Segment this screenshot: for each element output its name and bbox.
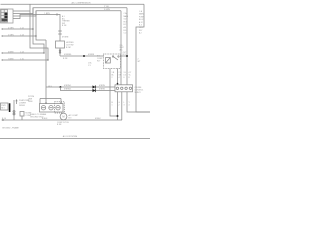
- solenoid coil L2: [49, 106, 53, 110]
- svg-text:2 YEL: 2 YEL: [104, 6, 109, 8]
- svg-text:M GRN: M GRN: [62, 37, 69, 39]
- wire solenoid drop left: [39, 99, 41, 104]
- svg-text:1 BRN: 1 BRN: [44, 13, 50, 15]
- svg-text:M BLK: M BLK: [95, 118, 101, 120]
- wire label M GRN: [62, 37, 69, 39]
- wire label M BRN/L: [64, 54, 72, 56]
- wire A6 label: [8, 51, 24, 53]
- wire solenoid drop right: [60, 99, 62, 104]
- svg-text:M BRN: M BRN: [99, 89, 105, 91]
- wire clutch feed: [46, 86, 61, 88]
- node J5 junction dot: [117, 115, 119, 117]
- svg-text:AC-24 SYSTEM: AC-24 SYSTEM: [63, 135, 78, 138]
- svg-text:M BRN: M BRN: [99, 85, 105, 87]
- svg-text:B 2M: B 2M: [66, 47, 71, 49]
- wire servo pin2 down: [121, 92, 123, 120]
- ground bus wire: [2, 119, 122, 121]
- svg-text:B 3M: B 3M: [57, 124, 62, 126]
- wire bus C label column: [120, 45, 128, 56]
- wire bus B: [13, 8, 127, 14]
- motor label: [69, 114, 79, 120]
- svg-text:MAIN: MAIN: [124, 15, 129, 18]
- compressor clutch dashed box: [55, 102, 65, 113]
- wire solenoid feed: [40, 98, 61, 100]
- node J4 junction dot: [60, 86, 62, 88]
- wire A/C chain vertical: [57, 15, 60, 57]
- svg-text:M BRN/L: M BRN/L: [64, 85, 71, 87]
- wire vertical labels upper: [112, 72, 132, 79]
- svg-text:4: 4: [129, 105, 130, 107]
- svg-text:M: M: [62, 115, 64, 119]
- wire left branch vertical 2: [33, 8, 44, 53]
- wire servo pin3 to right exit: [127, 92, 150, 112]
- connector C4 pins: [13, 111, 15, 116]
- relay K1 contact: [112, 56, 119, 60]
- platform relay label: [1, 105, 6, 110]
- svg-text:SERVO: SERVO: [135, 92, 142, 94]
- servo connector U1 box: [115, 85, 133, 92]
- A/C thermostat label: [62, 15, 70, 27]
- wire A4 label: [8, 27, 24, 29]
- platform lower drum label 2: [28, 96, 34, 103]
- solenoid coil L3: [56, 106, 60, 110]
- wire bus A top: [13, 10, 30, 12]
- svg-text:B 4: B 4: [139, 25, 142, 27]
- relay K1 coil: [106, 58, 111, 64]
- svg-text:C 5: C 5: [88, 65, 91, 67]
- solenoid box U2: [40, 104, 64, 113]
- wire bus C right drop: [120, 11, 122, 86]
- servo connector pins: [116, 87, 131, 89]
- solenoid coil L1: [41, 106, 45, 110]
- svg-text:DRM: DRM: [28, 101, 33, 103]
- wire drop to clutch line: [45, 40, 47, 103]
- wire D to A/C switch chain: [13, 15, 57, 19]
- wire left branch vertical 1: [30, 4, 48, 60]
- wire bus A top line: [1, 3, 145, 5]
- svg-text:B 6: B 6: [124, 30, 127, 32]
- svg-text:C 2: C 2: [124, 33, 127, 35]
- svg-text:4 GRN: 4 GRN: [8, 27, 14, 29]
- wire diode line 1: [61, 86, 116, 88]
- hi pressure switch S2 box: [56, 41, 65, 48]
- capacitor C5 label: [26, 113, 33, 118]
- platform relay box K2: [1, 103, 9, 110]
- connector C1 tick: [56, 13, 58, 16]
- wire to compressor relay: [60, 55, 104, 57]
- wire diode line 1 labels: [64, 85, 105, 87]
- motor M1: [60, 113, 67, 120]
- wire bus A right drop: [136, 4, 150, 112]
- svg-text:B 3: B 3: [69, 118, 72, 120]
- wire vertical labels lower: [112, 102, 131, 107]
- svg-text:A 2: A 2: [139, 32, 142, 35]
- wire bus C: [13, 11, 121, 16]
- connector C2 pins: [59, 50, 61, 54]
- svg-text:M BRN/L: M BRN/L: [64, 54, 72, 56]
- ground G1 arrow: [15, 99, 17, 104]
- connector C3 black bar: [9, 103, 11, 112]
- svg-text:3 GRN: 3 GRN: [104, 9, 110, 11]
- wire A7 label: [8, 58, 24, 60]
- wire diode line 2 labels: [64, 89, 105, 91]
- thermostat switch S1: [58, 31, 62, 34]
- svg-text:C 15: C 15: [20, 58, 24, 60]
- ground bus labels: [2, 118, 101, 120]
- svg-text:MAIN: MAIN: [139, 13, 144, 16]
- off-page arrow A4: [1, 28, 34, 30]
- svg-text:B 2M: B 2M: [63, 58, 68, 60]
- svg-text:C 13: C 13: [20, 34, 24, 36]
- header title text: [71, 2, 91, 5]
- ground note text: [2, 127, 19, 130]
- shield label: [30, 113, 47, 119]
- svg-text:M BRN: M BRN: [88, 54, 95, 56]
- svg-text:A 12: A 12: [139, 21, 143, 24]
- svg-text:B 2: B 2: [124, 24, 127, 26]
- wire relay output: [120, 55, 127, 57]
- wire below-line label: [63, 58, 68, 60]
- hi pressure switch label: [66, 42, 74, 49]
- svg-text:7 BRN: 7 BRN: [8, 58, 14, 60]
- footer text: [63, 135, 78, 138]
- node J7 dot: [60, 103, 62, 105]
- svg-text:8: 8: [129, 77, 130, 79]
- svg-text:5 GRN: 5 GRN: [8, 34, 14, 36]
- svg-text:4KG: 4KG: [48, 86, 52, 88]
- wire left branch vertical 3: [36, 11, 46, 40]
- wire branch to diode line 2: [61, 87, 116, 91]
- relay K1 pin circle: [104, 55, 106, 57]
- svg-text:6 BRN: 6 BRN: [8, 51, 14, 53]
- svg-text:GROUND - FRAME: GROUND - FRAME: [2, 127, 19, 130]
- connector C6 label: [88, 63, 92, 68]
- right margin legend column 2: [139, 10, 145, 35]
- off-page arrow A7: [1, 59, 49, 61]
- relay K1 labels: [97, 55, 103, 63]
- capacitor C5: [20, 112, 24, 121]
- servo label: [135, 87, 144, 94]
- svg-text:BLOC: BLOC: [139, 19, 145, 21]
- svg-text:4: 4: [119, 77, 120, 79]
- wire D label: [44, 13, 50, 15]
- svg-text:2: 2: [112, 77, 113, 79]
- wire bus A drop label: [138, 59, 142, 64]
- relay K1 dashed box: [104, 54, 121, 69]
- svg-text:C 12: C 12: [20, 27, 24, 29]
- right margin legend column 1: [124, 12, 129, 35]
- wire relay contact to servo: [117, 69, 119, 85]
- svg-text:M BRN/L: M BRN/L: [64, 89, 71, 91]
- wire bus B right drop: [126, 8, 128, 86]
- node J2 junction dot: [83, 55, 85, 57]
- junction box J1 enclosure: [1, 9, 14, 23]
- svg-text:FUSE: FUSE: [139, 16, 145, 18]
- svg-text:B BLK: B BLK: [42, 118, 48, 120]
- wire A5 label: [8, 34, 24, 36]
- svg-text:3: 3: [124, 105, 125, 107]
- wire label clutch feed: [48, 86, 52, 88]
- wire servo pin1 down: [117, 92, 119, 120]
- node J6 dot: [45, 103, 47, 105]
- svg-text:C 14: C 14: [20, 51, 24, 53]
- svg-text:1: 1: [112, 105, 113, 107]
- wire relay coil to ground bus: [110, 69, 118, 117]
- diode D2: [93, 89, 96, 92]
- svg-text:2: 2: [119, 105, 120, 107]
- svg-text:B 1M: B 1M: [62, 25, 67, 27]
- wire label M BRN: [88, 54, 95, 56]
- svg-text:B 14: B 14: [2, 118, 6, 120]
- svg-text:DRUM: DRUM: [19, 105, 25, 107]
- svg-text:6: 6: [124, 77, 125, 79]
- node J3 junction dot: [126, 55, 128, 57]
- wire bus labels: [104, 6, 110, 11]
- platform lower drum label: [19, 99, 30, 107]
- fuse panel F1 table: [1, 10, 8, 23]
- compressor note label: [57, 122, 69, 126]
- diode D1: [93, 85, 96, 88]
- off-page arrow A6: [1, 52, 45, 54]
- svg-text:A 4: A 4: [124, 26, 127, 29]
- off-page arrow A5: [1, 35, 37, 37]
- wire from connector C3: [13, 100, 15, 120]
- footer divider line: [0, 138, 150, 140]
